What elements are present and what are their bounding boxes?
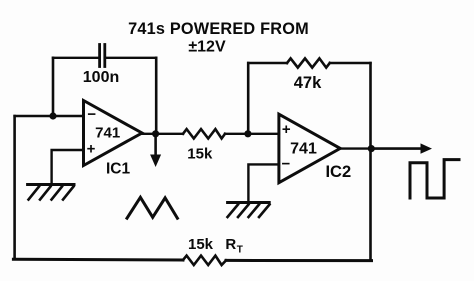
wire left rail vertical [13,116,16,259]
arrow output right [371,147,422,150]
svg-text:47k: 47k [294,74,322,92]
wire right rail vertical [369,63,372,261]
wire feedback top right lead from capacitor [106,57,156,59]
wire IC1 inverting input [15,115,84,117]
node IC1 output junction [152,130,159,137]
svg-text:15k: 15k [188,236,214,253]
ground under IC2 [228,203,270,218]
resistor R1 15k [183,129,225,138]
svg-text:IC2: IC2 [325,163,351,181]
wire feedback right vertical down to IC1 output [155,58,158,134]
ground under IC1 [28,185,74,200]
wire feedback top left lead to capacitor [53,57,98,59]
svg-text:±12V: ±12V [188,39,226,56]
wire feedback left vertical (cap to inverting node) [52,58,55,116]
node junction 15k/47k/IC2 [244,130,251,137]
svg-text:R: R [225,236,236,253]
wire IC1 noninverting lead to ground [52,150,84,184]
wire bottom rail left [13,258,183,262]
svg-text:T: T [237,245,243,256]
capacitor C1 100n plates [100,45,105,67]
svg-text:−: − [87,106,96,123]
wire 47k top left lead [248,62,287,64]
svg-text:−: − [282,156,291,173]
svg-text:741s POWERED FROM: 741s POWERED FROM [128,20,309,38]
square wave symbol [410,160,459,198]
svg-text:741: 741 [95,125,120,142]
wire IC1 output [142,133,183,135]
svg-text:+: + [282,121,291,138]
node IC2 output junction [368,145,375,152]
svg-text:741: 741 [290,141,317,158]
op-amp U1 IC1 triangle [84,101,143,166]
svg-text:+: + [87,140,96,157]
svg-text:15k: 15k [187,146,213,163]
svg-text:100n: 100n [83,69,119,86]
resistor R2 47k [287,58,330,67]
arrow down (triangle output marker) [154,134,157,156]
svg-text:IC1: IC1 [106,161,131,178]
wire 47k top right lead [330,62,371,64]
resistor RT 15k [183,256,226,265]
op-amp U2 IC2 triangle [279,114,340,183]
wire 15k to junction [225,133,279,135]
wire IC2 output [340,147,371,149]
wire 47k left vertical [247,63,250,134]
triangle wave symbol [127,197,177,218]
node junction cap/inverting input [49,112,56,119]
wire bottom rail right [226,259,372,262]
wire IC2 inverting lead to ground [248,164,279,201]
